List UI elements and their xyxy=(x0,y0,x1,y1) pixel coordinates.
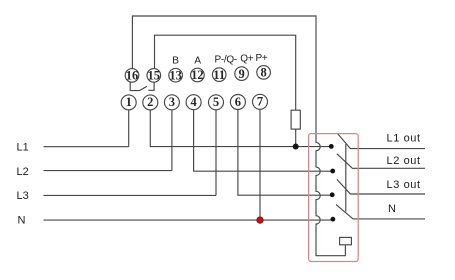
wire N line from label to relay contact xyxy=(44,219,333,221)
terminal circle 5 xyxy=(209,95,224,110)
terminal circle 3 xyxy=(164,95,179,110)
contact dot switch 3 xyxy=(330,192,335,197)
terminal circle 16 xyxy=(125,69,139,83)
svg-text:3: 3 xyxy=(169,95,175,109)
terminal circle 7 xyxy=(253,94,268,109)
svg-text:L2 out: L2 out xyxy=(387,155,421,167)
terminal circle 15 xyxy=(147,69,161,83)
wire from terminal 16 to relay coil (outer top loop + vertical with hops + bottom run) xyxy=(132,16,345,256)
wire meter L1 output: terminal 2 to relay contact xyxy=(150,110,331,147)
terminal circle 4 xyxy=(186,95,201,110)
svg-text:6: 6 xyxy=(235,95,241,109)
terminal circle 12 xyxy=(191,68,205,82)
svg-text:Q+: Q+ xyxy=(240,54,253,65)
svg-text:B: B xyxy=(172,56,179,67)
wire L1 input to terminal 1 xyxy=(44,110,129,147)
svg-text:P-/Q-: P-/Q- xyxy=(215,54,237,65)
contact dot switch 1 xyxy=(329,144,334,149)
relay coil xyxy=(340,237,352,244)
relay switch 1 blade and L1 out wire xyxy=(338,134,425,149)
svg-text:L1 out: L1 out xyxy=(387,133,421,145)
terminal circle 1 xyxy=(121,95,136,110)
wire meter L3 output: terminal 6 to relay contact xyxy=(238,110,332,196)
svg-text:9: 9 xyxy=(238,67,244,81)
svg-text:5: 5 xyxy=(213,95,219,109)
svg-text:1: 1 xyxy=(126,95,132,109)
svg-text:15: 15 xyxy=(148,69,161,83)
svg-text:L3: L3 xyxy=(17,190,29,202)
junction dot at fuse and L1 output xyxy=(293,144,299,150)
svg-text:N: N xyxy=(18,215,26,227)
svg-text:N: N xyxy=(388,203,397,215)
svg-text:L2: L2 xyxy=(17,166,29,178)
svg-text:11: 11 xyxy=(213,68,225,82)
fuse F1 xyxy=(291,110,300,129)
relay switch 2 blade and L2 out wire xyxy=(337,154,425,169)
svg-text:4: 4 xyxy=(190,95,197,109)
svg-text:12: 12 xyxy=(191,68,204,82)
svg-text:2: 2 xyxy=(147,95,153,109)
svg-text:16: 16 xyxy=(126,69,139,83)
mechanical link of relay switches xyxy=(345,144,347,212)
svg-text:L1: L1 xyxy=(17,142,29,154)
wire L3 input to terminal 5 xyxy=(44,110,217,196)
wire terminal 7 to N junction xyxy=(259,109,261,220)
contact dot switch 2 xyxy=(330,169,335,174)
terminal circle 6 xyxy=(230,95,245,110)
svg-text:7: 7 xyxy=(257,95,263,109)
terminal circle 11 xyxy=(212,68,226,82)
svg-text:8: 8 xyxy=(260,66,266,80)
relay switch 4 blade and N out wire xyxy=(336,205,425,219)
switch contact between terminals 16 and 15 xyxy=(130,82,154,91)
wire from terminal 15 through fuse to L1 junction (inner top loop) xyxy=(155,35,296,146)
wire L2 input to terminal 3 xyxy=(44,110,172,171)
svg-text:A: A xyxy=(194,55,201,66)
svg-text:P+: P+ xyxy=(256,53,268,64)
terminal circle 8 xyxy=(257,66,271,80)
relay switch 3 blade and L3 out wire xyxy=(337,179,425,194)
relay enclosure box (red) xyxy=(309,134,359,262)
svg-text:L3 out: L3 out xyxy=(387,179,421,191)
terminal circle 13 xyxy=(169,68,183,82)
svg-text:13: 13 xyxy=(169,68,182,82)
wire meter L2 output: terminal 4 to relay contact xyxy=(194,110,333,172)
contact dot switch 4 xyxy=(331,217,336,222)
terminal circle 2 xyxy=(143,95,158,110)
junction dot (red) terminal 7 on N line xyxy=(257,217,263,223)
terminal circle 9 xyxy=(235,67,249,81)
